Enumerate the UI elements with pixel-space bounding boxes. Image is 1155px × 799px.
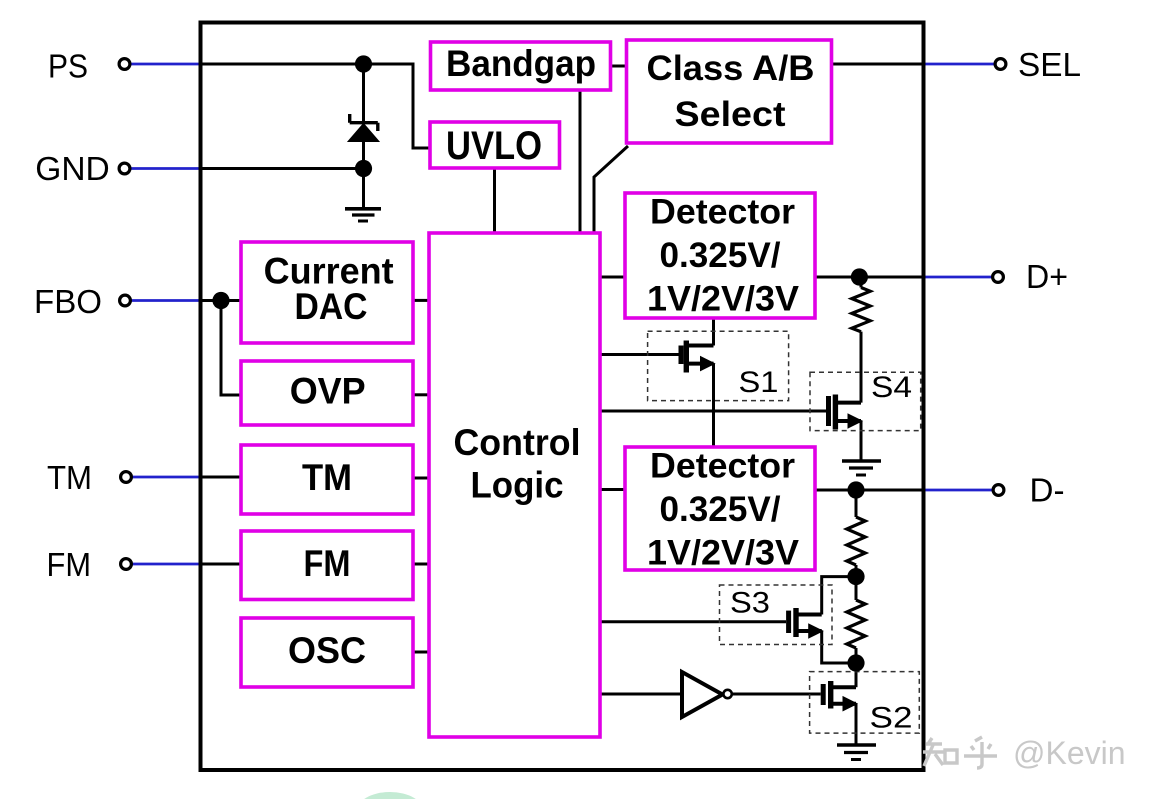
S4 dashed box	[810, 372, 921, 430]
wire FM box to Control Logic	[413, 563, 429, 566]
wire R3 to node C	[855, 648, 858, 687]
block Bandgap box	[431, 42, 611, 90]
watermark 知乎 @Kevin	[923, 737, 997, 768]
wire PS pin blue	[131, 63, 200, 66]
ground symbol (S2)	[837, 745, 876, 760]
watermark green arc	[356, 792, 424, 799]
svg-text:Select: Select	[675, 95, 786, 134]
transistor S3	[789, 608, 823, 638]
junction node D-	[847, 481, 864, 498]
svg-text:Logic: Logic	[471, 464, 564, 505]
junction node FBO	[212, 292, 229, 309]
pin circle D+	[993, 272, 1004, 283]
wire R2 to node B	[855, 565, 858, 600]
wire zener branch	[362, 64, 365, 122]
wire D+ pin blue	[925, 276, 992, 279]
wire FBO branch to OVP	[221, 301, 241, 396]
wire FBO pin blue	[132, 299, 201, 302]
svg-text:S1: S1	[739, 366, 779, 399]
block TM box	[241, 445, 413, 514]
wire GND pin blue	[131, 167, 200, 170]
wire D- node to resistor R2	[855, 490, 858, 517]
svg-text:FM: FM	[47, 546, 92, 583]
block Detector2 box	[625, 447, 815, 570]
svg-text:OVP: OVP	[290, 370, 366, 411]
transistor S2	[823, 681, 857, 711]
junction node C (R3/S3/S2)	[847, 654, 864, 671]
wire Class A/B to SEL	[833, 63, 925, 66]
svg-text:FM: FM	[304, 543, 351, 584]
svg-text:UVLO: UVLO	[446, 124, 542, 168]
wire FM pin to FM box	[200, 563, 241, 566]
svg-text:S2: S2	[870, 702, 913, 735]
inverter U1	[682, 672, 723, 717]
svg-text:S3: S3	[730, 587, 770, 620]
resistor R3	[847, 600, 865, 648]
svg-text:Detector: Detector	[650, 193, 795, 232]
wire inverter input from Control Logic	[600, 693, 682, 696]
wire TM pin to TM box	[200, 476, 241, 479]
svg-text:GND: GND	[35, 150, 110, 187]
svg-text:TM: TM	[302, 457, 352, 498]
BOXES	[241, 40, 832, 737]
wire Bandgap to Control Logic	[579, 90, 582, 233]
block UVLO box	[430, 122, 560, 168]
wire OSC to Control Logic	[413, 651, 429, 654]
pin circle GND	[119, 163, 130, 174]
S2 dashed box	[810, 672, 920, 734]
wire Bandgap to Class A/B	[611, 65, 628, 68]
svg-text:OSC: OSC	[288, 630, 366, 671]
svg-text:0.325V/: 0.325V/	[660, 236, 781, 275]
block Control Logic box	[429, 233, 600, 737]
pin circle TM	[121, 472, 132, 483]
svg-text:TM: TM	[47, 459, 92, 496]
block FM box	[241, 531, 413, 600]
wire FM pin blue	[133, 563, 201, 566]
wire S2 source to ground	[855, 704, 858, 745]
wire Current DAC to Control Logic	[413, 299, 429, 302]
wire SEL pin blue	[925, 63, 994, 66]
ground symbol (zener)	[345, 209, 381, 221]
pin circle FBO	[120, 295, 131, 306]
svg-text:S4: S4	[871, 371, 912, 404]
zener diode D1	[348, 114, 379, 142]
wire Detector1 to D+	[816, 276, 925, 279]
IC boundary box	[201, 23, 924, 771]
svg-text:1V/2V/3V: 1V/2V/3V	[647, 534, 800, 573]
svg-text:FBO: FBO	[34, 283, 102, 320]
S1 dashed box	[648, 331, 789, 400]
wire R1 to S4 drain	[860, 332, 863, 403]
wire OVP to Control Logic	[413, 393, 429, 396]
svg-text:PS: PS	[48, 48, 88, 85]
wire node B to S3 drain	[822, 577, 856, 615]
wire S3 gate from Control Logic	[600, 620, 786, 623]
junction node GND/zener	[355, 160, 372, 177]
wire Control Logic to Detector2	[600, 488, 625, 491]
wire Class A/B diagonal to Control Logic	[594, 146, 628, 233]
resistor R1	[852, 288, 870, 332]
wire Detector2 to D-	[815, 489, 925, 492]
wire TM box to Control Logic	[413, 477, 429, 480]
wire Control Logic to Detector1	[600, 276, 626, 279]
svg-text:D-: D-	[1030, 472, 1065, 509]
svg-text:Detector: Detector	[650, 447, 795, 486]
junction node PS/zener	[355, 55, 372, 72]
wire S3 source to node C	[822, 631, 856, 663]
svg-text:@Kevin: @Kevin	[1013, 735, 1126, 771]
wire S1 source down to Detector2	[712, 364, 715, 447]
svg-text:Control: Control	[454, 422, 581, 463]
wire PS internal	[200, 64, 430, 148]
transistor S4	[829, 395, 863, 430]
block OVP box	[241, 361, 413, 425]
pin circle D-	[993, 485, 1004, 496]
svg-text:0.325V/: 0.325V/	[660, 490, 781, 529]
wire S4 source to ground	[860, 421, 863, 461]
wire UVLO to Control Logic	[493, 168, 496, 233]
wire Detector1 to S1 drain	[712, 318, 715, 346]
inverter bubble	[723, 690, 731, 698]
wire TM pin blue	[133, 476, 201, 479]
junction node B (R2/R3/S3)	[847, 568, 864, 585]
pin circle SEL	[995, 59, 1006, 70]
junction node D+	[851, 268, 868, 285]
resistor R2	[847, 517, 865, 565]
wire GND internal	[200, 169, 364, 209]
svg-text:SEL: SEL	[1018, 46, 1081, 83]
pin circle FM	[121, 559, 132, 570]
block OSC box	[241, 618, 413, 687]
svg-text:DAC: DAC	[295, 286, 368, 327]
wire S4 gate from Control Logic	[600, 410, 826, 413]
block Class A/B Select box	[627, 40, 832, 143]
wire D- pin blue	[925, 489, 992, 492]
pin circle PS	[119, 59, 130, 70]
svg-text:1V/2V/3V: 1V/2V/3V	[647, 280, 800, 319]
svg-text:D+: D+	[1026, 258, 1068, 295]
ground symbol (S4)	[842, 461, 881, 475]
block Current DAC box	[241, 242, 413, 343]
wire D+ node to resistor R1	[860, 277, 863, 288]
block Detector1 box	[625, 193, 815, 318]
transistor S1	[681, 341, 715, 373]
wire S1 gate from Control Logic	[600, 353, 679, 356]
svg-text:Class A/B: Class A/B	[647, 49, 815, 88]
svg-text:Bandgap: Bandgap	[446, 43, 596, 84]
wire FBO to Current DAC	[200, 299, 241, 302]
wire inverter output to S2 gate	[732, 693, 821, 696]
S3 dashed box	[720, 585, 833, 645]
